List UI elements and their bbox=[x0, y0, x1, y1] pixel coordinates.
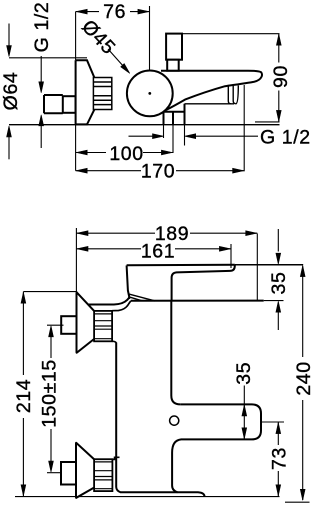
dim 150±15 arrows bbox=[50, 336, 52, 358]
upper knurled connector (front view) bbox=[94, 311, 112, 341]
svg-text:G 1/2: G 1/2 bbox=[260, 127, 311, 149]
dim 214 top extension line bbox=[23, 291, 77, 293]
dim 73 line with arrows bbox=[271, 422, 287, 496]
dim G 1/2 right arrows bbox=[129, 135, 153, 137]
dim Ø64 extension line top bbox=[9, 57, 87, 59]
wall plate (top view, escutcheon trapezoid) bbox=[76, 60, 95, 124]
dim 76 long extension (x75.6 lower part) bbox=[75, 124, 77, 170]
body shoulder line (front view) bbox=[131, 300, 264, 302]
dim label 90 (rotated) bbox=[270, 63, 292, 91]
lower knurled connector (front view) bbox=[94, 459, 112, 491]
spout right end (front view) bbox=[230, 265, 235, 271]
extension line inlet left (x163.5) bbox=[163, 125, 165, 138]
dim 240 bottom extension line bbox=[285, 501, 310, 503]
dim 214 line with arrows bbox=[15, 292, 32, 497]
dim 76 extension line left bbox=[75, 12, 77, 61]
dim 90 extension line bottom bbox=[255, 121, 280, 123]
handle circle center dot bbox=[148, 92, 151, 95]
svg-text:35: 35 bbox=[268, 272, 290, 295]
dim 76 extension line right bbox=[149, 6, 151, 70]
lower wall plate (front view) bbox=[76, 443, 94, 498]
lever grip (top view) bbox=[166, 34, 182, 60]
lever blade (front view) bbox=[128, 294, 155, 301]
spout base bottom (top view) bbox=[185, 86, 239, 104]
spout (top view) outline bbox=[163, 71, 262, 112]
spout top edge (front view) bbox=[127, 264, 235, 266]
dim 90 extension line top bbox=[183, 33, 280, 35]
svg-text:76: 76 bbox=[103, 1, 126, 23]
dim 73 top extension line bbox=[262, 421, 284, 423]
extension line inlet right (x184.5) bbox=[184, 125, 186, 146]
body top edge line (top view) bbox=[161, 70, 248, 72]
dim 35 arm line with arrows bbox=[242, 386, 247, 440]
svg-text:170: 170 bbox=[141, 160, 175, 182]
lever neck (top view) bbox=[167, 60, 179, 71]
spout lip line (front view) bbox=[172, 271, 230, 301]
svg-text:150±15: 150±15 bbox=[39, 359, 61, 428]
svg-text:240: 240 bbox=[293, 361, 315, 395]
wire wall line (top view) bbox=[9, 124, 280, 126]
svg-text:100: 100 bbox=[109, 143, 143, 165]
handle circle (top view, diameter 45) bbox=[127, 71, 173, 117]
extension line inlet mid (x173) bbox=[172, 125, 174, 153]
dim 189 line with arrows bbox=[76, 225, 257, 241]
dim 189 right extension line bbox=[256, 234, 258, 301]
upper wall plate (front view) bbox=[77, 292, 95, 352]
supply pipe (top view, left inlet) bbox=[44, 95, 63, 113]
shower arm (front view) bbox=[172, 404, 261, 492]
dim 150±15 top extension line bbox=[47, 324, 64, 326]
lower connector to body lines (front view) bbox=[112, 457, 119, 459]
svg-text:214: 214 bbox=[13, 379, 35, 413]
body right edge (front view) bbox=[171, 301, 180, 405]
body outline (front view) bbox=[127, 265, 130, 299]
inlet nut (top view) bbox=[63, 96, 76, 113]
dim 76 line with arrows bbox=[76, 3, 150, 20]
knurled connector (top view) bbox=[93, 78, 111, 110]
dim 161 line with arrows bbox=[76, 243, 231, 258]
svg-text:G 1/2: G 1/2 bbox=[31, 2, 53, 53]
baseline extension (bottom) bbox=[15, 496, 280, 498]
dim 35 spout top extension line bbox=[235, 264, 303, 266]
svg-text:161: 161 bbox=[141, 241, 175, 263]
dim 100 line with arrows bbox=[76, 145, 173, 161]
upper inlet fitting (front view) bbox=[61, 316, 76, 334]
dim 240 line with arrows bbox=[302, 266, 304, 357]
dim 170 line with arrows bbox=[76, 163, 245, 179]
extension line spout end (x244.2) bbox=[243, 85, 245, 171]
dim G 1/2 left leader arrows bbox=[40, 56, 42, 82]
svg-text:90: 90 bbox=[270, 65, 292, 88]
svg-text:35: 35 bbox=[233, 362, 255, 385]
dim Ø64 arrows bbox=[8, 24, 10, 48]
spout nozzle (top view) bbox=[228, 85, 236, 104]
dim 90 line with arrows bbox=[278, 34, 280, 122]
dim 161 right extension line bbox=[230, 244, 232, 268]
inlet fitting (top view) bbox=[164, 104, 185, 125]
svg-text:73: 73 bbox=[268, 447, 290, 470]
hole circle on arm (front view) bbox=[170, 416, 179, 425]
upper connector to body lines (front view) bbox=[112, 301, 131, 343]
leader arrow for Ø45 bbox=[108, 49, 127, 70]
lower inlet fitting (front view) bbox=[61, 462, 76, 485]
dim 35 spout arrows bbox=[277, 229, 279, 252]
svg-text:Ø64: Ø64 bbox=[0, 72, 22, 111]
dim 150±15 bottom extension line bbox=[47, 472, 61, 474]
dim 189/161 left extension line bbox=[75, 228, 77, 292]
dim 35 spout bottom extension line bbox=[264, 300, 284, 302]
